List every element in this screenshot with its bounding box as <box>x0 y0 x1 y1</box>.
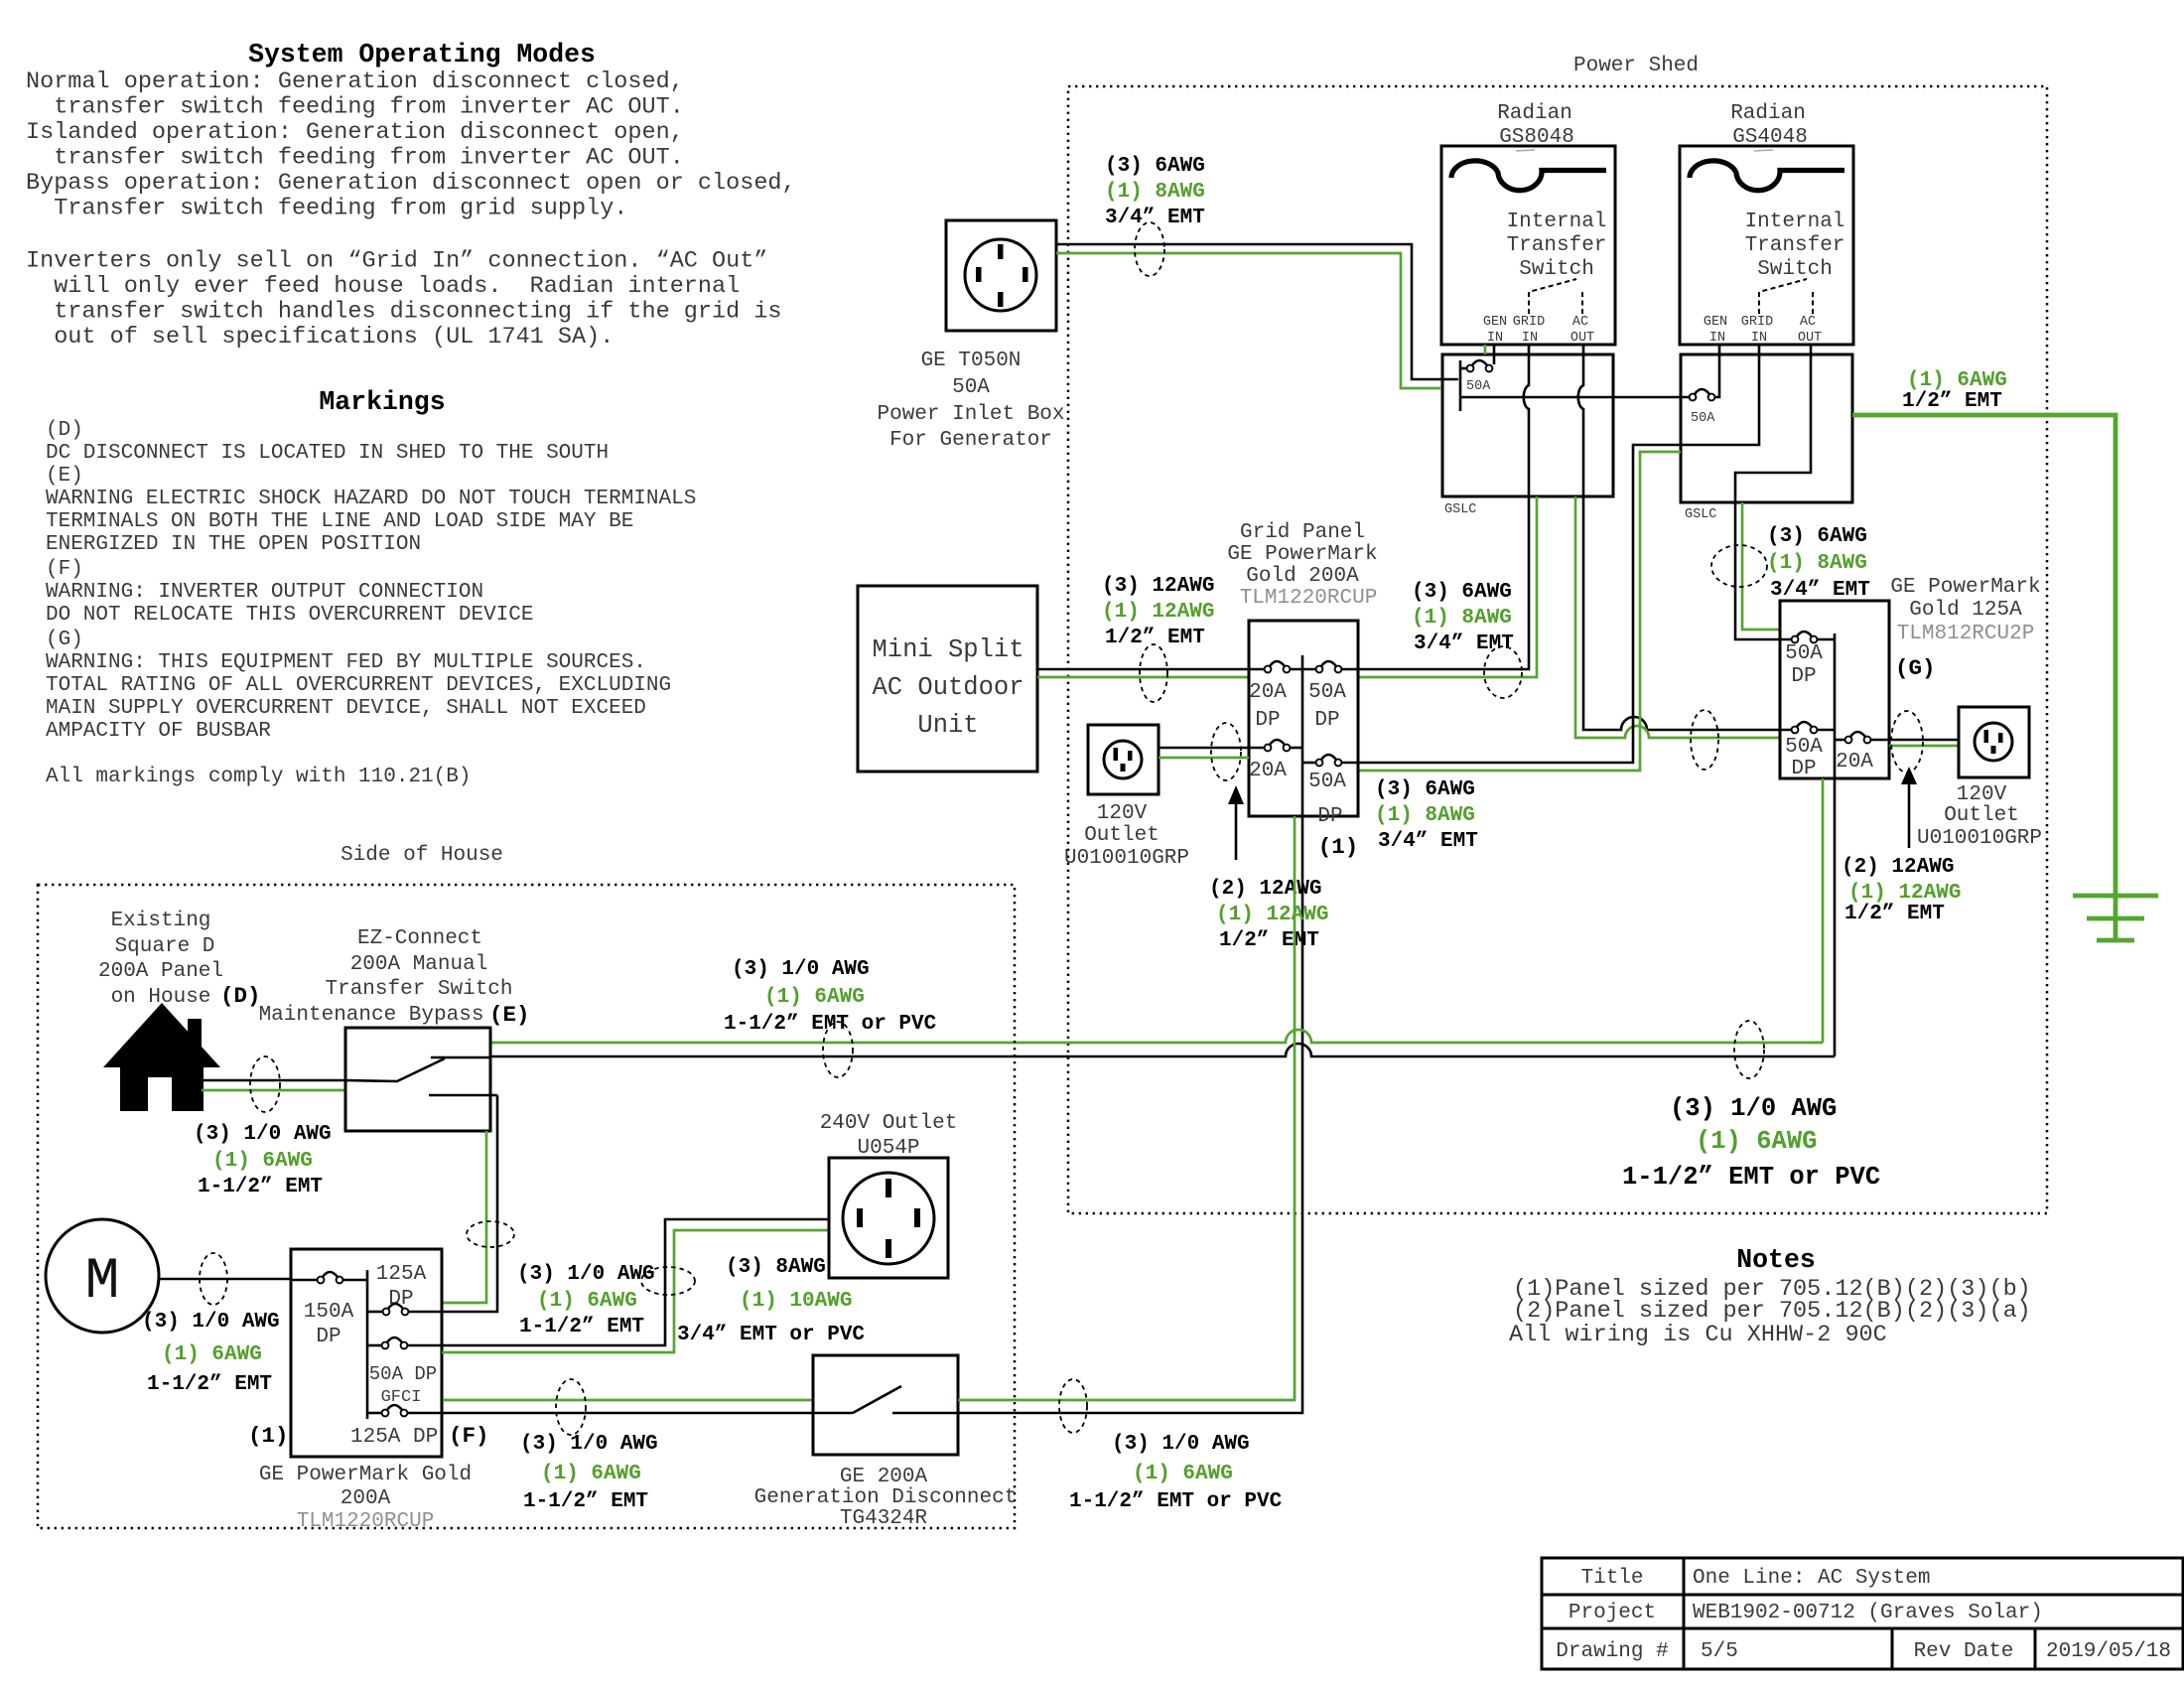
svg-text:(F): (F) <box>449 1423 489 1449</box>
svg-text:20A: 20A <box>1836 751 1873 774</box>
svg-text:TG4324R: TG4324R <box>840 1507 928 1530</box>
125A panel internal bus / feeder to long run <box>1834 633 1837 1056</box>
svg-text:GE 200A: GE 200A <box>840 1466 928 1488</box>
green pin GEN IN GS8048 <box>1484 345 1487 354</box>
arrow: shed outlet conduit pointer <box>1235 802 1238 860</box>
svg-text:GE PowerMark: GE PowerMark <box>1227 543 1377 566</box>
svg-text:(E): (E) <box>46 465 83 488</box>
svg-text:(3) 6AWG: (3) 6AWG <box>1105 155 1205 178</box>
breaker 50A DP (to GSLC grid in) <box>1316 666 1323 673</box>
conduit marker: AC OUT to 125A panel <box>1691 710 1718 770</box>
conduit marker: 125A outlet run <box>1891 711 1923 773</box>
ground symbol <box>2073 894 2158 899</box>
wire: long run EZ-connect to 125A panel (black) <box>490 1044 1835 1056</box>
svg-text:1/2” EMT: 1/2” EMT <box>1902 390 2002 413</box>
svg-text:(1) 8AWG: (1) 8AWG <box>1105 181 1205 204</box>
120V outlet U010010GRP (right) <box>1959 707 2029 777</box>
conduit marker: inlet run <box>1135 222 1164 276</box>
breaker 50A DP GFCI (240V outlet) <box>367 1344 382 1347</box>
conduit marker: shed outlet run <box>1211 723 1241 780</box>
OutBack logo swoosh GS8048 <box>1451 161 1606 191</box>
svg-text:Gold 125A: Gold 125A <box>1909 599 2022 622</box>
svg-text:TLM1220RCUP: TLM1220RCUP <box>1240 587 1378 610</box>
svg-text:Outlet: Outlet <box>1084 824 1160 847</box>
svg-text:IN: IN <box>1751 331 1767 346</box>
svg-text:GSLC: GSLC <box>1685 507 1716 522</box>
svg-text:1-1/2” EMT: 1-1/2” EMT <box>198 1176 323 1198</box>
wire: 125A panel feeder down to long run (green) <box>1822 778 1825 1043</box>
svg-text:(3) 1/0 AWG: (3) 1/0 AWG <box>732 958 870 981</box>
svg-text:Normal operation: Generation d: Normal operation: Generation disconnect … <box>26 69 684 95</box>
svg-text:Markings: Markings <box>319 387 445 417</box>
conduit marker: gen disconnect to shed <box>1059 1379 1087 1433</box>
wire: equipment ground to ground rod (thick green) <box>1852 415 2116 940</box>
wire: 240V outlet feed (black) <box>407 1219 829 1345</box>
svg-text:5/5: 5/5 <box>1701 1640 1738 1663</box>
svg-text:All markings comply with 110.2: All markings comply with 110.21(B) <box>46 766 471 788</box>
svg-text:120V: 120V <box>1097 802 1148 825</box>
svg-text:All wiring is Cu XHHW-2 90C: All wiring is Cu XHHW-2 90C <box>1509 1322 1887 1348</box>
svg-text:U010010GRP: U010010GRP <box>1064 847 1189 870</box>
inverter GS4048 <box>1680 146 1853 345</box>
svg-text:Internal: Internal <box>1745 211 1845 233</box>
svg-text:(3) 8AWG: (3) 8AWG <box>726 1256 826 1279</box>
svg-text:(1) 6AWG: (1) 6AWG <box>1133 1463 1233 1485</box>
svg-text:(3) 6AWG: (3) 6AWG <box>1412 581 1512 604</box>
grid panel bus divider / feeder down to generation disconnect <box>958 655 1302 1413</box>
svg-text:AC Outdoor: AC Outdoor <box>872 673 1024 702</box>
wire: generator inlet ground (green) <box>1056 253 1441 388</box>
svg-text:Outlet: Outlet <box>1944 804 2019 827</box>
svg-text:Maintenance Bypass: Maintenance Bypass <box>259 1004 484 1027</box>
svg-text:DP: DP <box>1791 758 1816 780</box>
house icon <box>103 1003 220 1067</box>
svg-text:M: M <box>85 1250 120 1315</box>
svg-text:(1) 12AWG: (1) 12AWG <box>1102 601 1214 624</box>
wire: GS4048 GRID IN ground (green) <box>1358 452 1681 771</box>
svg-text:1-1/2” EMT: 1-1/2” EMT <box>519 1316 644 1338</box>
svg-text:ENERGIZED IN THE OPEN POSITION: ENERGIZED IN THE OPEN POSITION <box>46 533 421 556</box>
svg-text:Islanded operation: Generation: Islanded operation: Generation disconnec… <box>26 119 684 146</box>
svg-text:200A Panel: 200A Panel <box>98 960 223 983</box>
panel: Grid Panel GE PowerMark Gold 200A <box>1249 621 1358 816</box>
svg-text:transfer switch handles discon: transfer switch handles disconnecting if… <box>26 299 782 326</box>
svg-text:(3) 6AWG: (3) 6AWG <box>1767 525 1867 548</box>
svg-text:Switch: Switch <box>1519 258 1594 281</box>
svg-text:(1) 12AWG: (1) 12AWG <box>1848 882 1961 905</box>
svg-text:(1): (1) <box>1318 834 1359 860</box>
internal transfer switch symbol GS4048 (dashed) <box>1759 279 1813 314</box>
svg-text:GE PowerMark: GE PowerMark <box>1890 576 2040 599</box>
conduit marker: 240V outlet run <box>641 1267 695 1295</box>
svg-text:Internal: Internal <box>1507 211 1607 233</box>
svg-text:TERMINALS ON BOTH THE LINE AND: TERMINALS ON BOTH THE LINE AND LOAD SIDE… <box>46 510 633 533</box>
svg-text:Square D: Square D <box>115 935 215 958</box>
svg-text:System Operating Modes: System Operating Modes <box>248 40 596 70</box>
wire: 125A panel outlet ground (green) <box>1889 745 1959 748</box>
svg-text:50A DP: 50A DP <box>369 1363 437 1385</box>
svg-text:1-1/2” EMT: 1-1/2” EMT <box>147 1373 272 1396</box>
arrow: right outlet conduit pointer <box>1908 782 1911 848</box>
svg-text:(1) 8AWG: (1) 8AWG <box>1412 607 1512 630</box>
breaker 150A DP (main) <box>291 1279 318 1282</box>
svg-text:(3) 1/0 AWG: (3) 1/0 AWG <box>520 1433 658 1456</box>
GE T050N power inlet box <box>946 220 1056 331</box>
svg-text:Project: Project <box>1569 1602 1656 1624</box>
svg-text:(3) 12AWG: (3) 12AWG <box>1102 575 1214 598</box>
wire: house panel to generation disconnect (black) <box>407 1412 853 1415</box>
120V outlet U010010GRP (shed) <box>1088 725 1159 794</box>
breaker 50A (GSLC2 generator) <box>1690 394 1697 401</box>
svg-text:(G): (G) <box>46 629 83 651</box>
breaker 50A DP (125A panel top) <box>1792 636 1799 643</box>
svg-text:Side of House: Side of House <box>341 844 503 867</box>
svg-text:transfer switch feeding from i: transfer switch feeding from inverter AC… <box>26 145 684 172</box>
svg-text:IN: IN <box>1709 331 1725 346</box>
svg-text:200A: 200A <box>341 1487 391 1510</box>
breaker 20A DP (mini split) <box>1265 666 1272 673</box>
svg-text:OUT: OUT <box>1798 331 1822 346</box>
svg-text:TOTAL RATING OF ALL OVERCURREN: TOTAL RATING OF ALL OVERCURRENT DEVICES,… <box>46 674 671 697</box>
conduit marker: long run right <box>1734 1021 1764 1078</box>
wire: long run ground (green) <box>490 1030 1823 1043</box>
svg-text:(1) 6AWG: (1) 6AWG <box>537 1290 637 1313</box>
svg-text:U010010GRP: U010010GRP <box>1917 827 2042 850</box>
svg-text:Power Inlet Box: Power Inlet Box <box>877 403 1064 426</box>
svg-text:1-1/2” EMT or PVC: 1-1/2” EMT or PVC <box>1069 1490 1283 1513</box>
wire: 125A panel outlet feed (black) <box>1870 739 1959 742</box>
svg-text:DO NOT RELOCATE THIS OVERCURRE: DO NOT RELOCATE THIS OVERCURRENT DEVICE <box>46 604 533 627</box>
svg-text:3/4” EMT: 3/4” EMT <box>1770 579 1870 602</box>
GSLC load center 2 <box>1681 354 1852 502</box>
inverter GS8048 <box>1441 146 1615 345</box>
conduit marker: meter run <box>200 1253 227 1305</box>
svg-text:will only ever feed house load: will only ever feed house loads. Radian … <box>26 273 740 300</box>
svg-text:AC: AC <box>1800 315 1816 330</box>
svg-text:(1) 6AWG: (1) 6AWG <box>212 1150 313 1173</box>
wire: house panel to generation disconnect ground (green) <box>443 1399 813 1402</box>
svg-text:GRID: GRID <box>1513 315 1545 330</box>
wire: mini split feed (black) <box>1037 668 1265 671</box>
svg-text:Radian: Radian <box>1730 102 1806 125</box>
wire: 240V outlet ground (green) <box>442 1230 829 1352</box>
internal transfer switch symbol GS8048 (dashed) <box>1529 279 1582 314</box>
disconnect switch: GE 200A TG4324R <box>813 1355 958 1455</box>
wire: EZ-connect to house panel 125A DP (black) <box>406 1095 497 1312</box>
svg-text:(3) 1/0 AWG: (3) 1/0 AWG <box>1670 1094 1837 1123</box>
svg-text:50A: 50A <box>1466 379 1491 394</box>
svg-text:AMPACITY OF BUSBAR: AMPACITY OF BUSBAR <box>46 720 271 743</box>
svg-text:125A: 125A <box>376 1263 427 1286</box>
house panel bus divider <box>366 1270 369 1419</box>
svg-text:OUT: OUT <box>1570 331 1594 346</box>
svg-text:Notes: Notes <box>1736 1245 1816 1275</box>
svg-text:(2)Panel sized per 705.12(B)(2: (2)Panel sized per 705.12(B)(2)(3)(a) <box>1513 1298 2031 1325</box>
svg-text:(E): (E) <box>489 1002 530 1028</box>
svg-text:Unit: Unit <box>917 711 978 740</box>
svg-text:150A: 150A <box>304 1301 354 1324</box>
Mini Split AC Outdoor Unit <box>858 586 1037 772</box>
title block <box>1542 1558 2183 1669</box>
wire: house to EZ-connect (black) <box>202 1079 345 1082</box>
svg-text:Existing: Existing <box>111 910 211 932</box>
node: Side of House enclosure <box>38 885 1015 1528</box>
svg-text:(3) 1/0 AWG: (3) 1/0 AWG <box>1112 1433 1250 1456</box>
svg-text:DP: DP <box>1317 805 1342 828</box>
conduit marker: long run left <box>823 1022 853 1077</box>
svg-text:(G): (G) <box>1895 655 1936 681</box>
svg-text:Inverters only sell on “Grid I: Inverters only sell on “Grid In” connect… <box>26 248 767 275</box>
wire: GS4048 AC OUT to 125A panel (black) <box>1735 345 1811 639</box>
breaker 50A DP (bottom, to GS4048 grid in) <box>1316 760 1323 767</box>
svg-text:GRID: GRID <box>1741 315 1773 330</box>
panel: GE PowerMark Gold 200A (house) <box>291 1249 442 1457</box>
svg-text:DC DISCONNECT IS LOCATED IN SH: DC DISCONNECT IS LOCATED IN SHED TO THE … <box>46 442 609 465</box>
wire: GSLC1 internal bus to GSLC2 <box>1460 396 1689 399</box>
GSLC load center 1 <box>1442 354 1613 496</box>
svg-text:1/2” EMT: 1/2” EMT <box>1105 627 1205 649</box>
svg-text:WARNING: INVERTER OUTPUT CONNE: WARNING: INVERTER OUTPUT CONNECTION <box>46 581 483 604</box>
wire: GS4048 GRID IN from grid panel 50A DP (black) <box>1338 345 1759 763</box>
panel: GE PowerMark Gold 125A TLM812RCU2P <box>1780 601 1889 778</box>
svg-text:1/2” EMT: 1/2” EMT <box>1844 903 1945 925</box>
svg-text:Gold 200A: Gold 200A <box>1246 565 1359 588</box>
svg-text:Generation Disconnect: Generation Disconnect <box>754 1486 1018 1509</box>
svg-text:transfer switch feeding from i: transfer switch feeding from inverter AC… <box>26 94 684 121</box>
svg-text:(1) 6AWG: (1) 6AWG <box>1696 1127 1817 1156</box>
breaker 125A DP (bottom, to generation disconnect) <box>367 1412 382 1415</box>
svg-text:Grid Panel: Grid Panel <box>1240 521 1365 544</box>
svg-text:3/4” EMT: 3/4” EMT <box>1105 207 1205 229</box>
svg-text:Power Shed: Power Shed <box>1573 55 1699 77</box>
svg-text:One Line: AC System: One Line: AC System <box>1693 1567 1930 1590</box>
wire: house to EZ-connect ground (green) <box>202 1089 345 1092</box>
svg-text:Title: Title <box>1580 1567 1643 1590</box>
svg-text:Transfer Switch: Transfer Switch <box>325 978 512 1001</box>
svg-text:DP: DP <box>1791 665 1816 688</box>
svg-text:(3) 1/0 AWG: (3) 1/0 AWG <box>194 1123 332 1146</box>
svg-text:(1) 10AWG: (1) 10AWG <box>740 1290 852 1313</box>
svg-text:1-1/2” EMT: 1-1/2” EMT <box>523 1490 648 1513</box>
svg-text:240V Outlet: 240V Outlet <box>820 1112 958 1135</box>
svg-text:200A Manual: 200A Manual <box>350 953 488 976</box>
svg-text:3/4” EMT or PVC: 3/4” EMT or PVC <box>677 1324 865 1346</box>
svg-text:Drawing #: Drawing # <box>1556 1640 1668 1663</box>
svg-text:TLM1220RCUP: TLM1220RCUP <box>297 1510 435 1533</box>
wire: mini split ground (green) <box>1037 676 1249 679</box>
conduit marker: gen disconnect feed <box>556 1379 586 1435</box>
svg-text:50A: 50A <box>1691 411 1715 426</box>
svg-text:(1) 8AWG: (1) 8AWG <box>1767 552 1867 575</box>
svg-text:DP: DP <box>1255 709 1280 732</box>
svg-text:(3) 1/0 AWG: (3) 1/0 AWG <box>142 1311 280 1334</box>
svg-text:(1) 6AWG: (1) 6AWG <box>541 1463 641 1485</box>
svg-text:IN: IN <box>1522 331 1538 346</box>
wire: shed outlet ground (green) <box>1159 757 1249 760</box>
svg-text:(1): (1) <box>248 1423 289 1449</box>
svg-text:Transfer: Transfer <box>1745 234 1845 257</box>
wire: generation disconnect ground to grid panel (green) <box>958 816 1295 1400</box>
svg-text:Switch: Switch <box>1757 258 1833 281</box>
svg-text:(1) 12AWG: (1) 12AWG <box>1216 904 1328 926</box>
wire: GS8048 AC OUT down to 125A panel (black) <box>1578 345 1791 730</box>
svg-text:2019/05/18: 2019/05/18 <box>2046 1640 2171 1663</box>
svg-text:50A: 50A <box>952 376 990 399</box>
svg-text:(D): (D) <box>220 983 261 1009</box>
conduit marker: mini split run <box>1140 644 1167 702</box>
svg-text:Bypass operation: Generation d: Bypass operation: Generation disconnect … <box>26 170 796 197</box>
svg-text:3/4” EMT: 3/4” EMT <box>1414 633 1514 655</box>
svg-text:WARNING: THIS EQUIPMENT FED BY: WARNING: THIS EQUIPMENT FED BY MULTIPLE … <box>46 651 646 674</box>
svg-text:(1) 6AWG: (1) 6AWG <box>162 1343 262 1366</box>
svg-text:120V: 120V <box>1957 783 2007 806</box>
svg-text:50A: 50A <box>1308 771 1346 793</box>
svg-text:1-1/2” EMT or PVC: 1-1/2” EMT or PVC <box>1622 1163 1880 1192</box>
svg-text:GEN: GEN <box>1483 315 1507 330</box>
svg-text:EZ-Connect: EZ-Connect <box>357 927 482 950</box>
svg-text:(3) 6AWG: (3) 6AWG <box>1375 778 1475 801</box>
svg-text:20A: 20A <box>1249 681 1287 704</box>
node: Power Shed enclosure <box>1068 86 2047 1213</box>
svg-text:(2) 12AWG: (2) 12AWG <box>1842 856 1954 879</box>
svg-text:AC: AC <box>1572 315 1588 330</box>
wire: GS8048 GRID IN down to grid panel (black) <box>1338 345 1529 669</box>
wire: shed outlet feed (black) <box>1159 747 1265 750</box>
svg-text:50A: 50A <box>1785 642 1823 665</box>
svg-text:WARNING ELECTRIC SHOCK HAZARD: WARNING ELECTRIC SHOCK HAZARD DO NOT TOU… <box>46 488 696 510</box>
svg-text:DP: DP <box>1314 709 1339 732</box>
svg-text:Transfer switch feeding from g: Transfer switch feeding from grid supply… <box>26 196 627 222</box>
utility meter M <box>46 1219 159 1333</box>
svg-text:(D): (D) <box>46 419 83 442</box>
wire: meter to house panel <box>159 1278 291 1281</box>
svg-text:GSLC: GSLC <box>1444 502 1476 517</box>
svg-text:For Generator: For Generator <box>889 429 1052 452</box>
svg-text:GEN: GEN <box>1704 315 1727 330</box>
svg-text:GE T050N: GE T050N <box>921 350 1022 372</box>
breaker 50A (GSLC1 generator) <box>1493 345 1496 364</box>
svg-text:GE PowerMark Gold: GE PowerMark Gold <box>259 1464 472 1486</box>
svg-text:3/4” EMT: 3/4” EMT <box>1378 830 1478 853</box>
conduit marker: EZ down run <box>467 1221 514 1247</box>
svg-text:WEB1902-00712 (Graves Solar): WEB1902-00712 (Graves Solar) <box>1693 1602 2043 1624</box>
GSLC1 input bus bar <box>1459 360 1462 411</box>
breaker 50A DP (125A panel bottom) <box>1792 727 1799 734</box>
240V outlet U054P <box>829 1158 948 1278</box>
svg-text:(2) 12AWG: (2) 12AWG <box>1209 878 1321 901</box>
svg-text:DP: DP <box>316 1326 341 1348</box>
svg-text:Radian: Radian <box>1497 102 1572 125</box>
svg-text:20A: 20A <box>1249 760 1287 782</box>
svg-text:1/2” EMT: 1/2” EMT <box>1219 929 1319 952</box>
wire: EZ-connect ground down (green) <box>443 1131 486 1303</box>
OutBack logo swoosh GS4048 <box>1690 161 1844 191</box>
svg-text:MAIN SUPPLY OVERCURRENT DEVICE: MAIN SUPPLY OVERCURRENT DEVICE, SHALL NO… <box>46 697 646 720</box>
svg-text:1-1/2” EMT or PVC: 1-1/2” EMT or PVC <box>724 1013 937 1036</box>
svg-text:Transfer: Transfer <box>1507 234 1607 257</box>
svg-text:(1) 6AWG: (1) 6AWG <box>1907 369 2007 392</box>
svg-text:125A DP: 125A DP <box>350 1426 438 1449</box>
svg-text:(F): (F) <box>46 558 83 581</box>
wire: GS8048 GRID IN ground (green) <box>1358 496 1537 677</box>
svg-text:Mini Split: Mini Split <box>872 635 1024 664</box>
svg-text:(1) 8AWG: (1) 8AWG <box>1375 804 1475 827</box>
wire: GS8048 AC OUT ground (green) <box>1575 496 1779 738</box>
transfer switch: EZ-Connect 200A manual <box>345 1028 490 1131</box>
svg-text:Rev Date: Rev Date <box>1914 1640 2014 1663</box>
conduit marker: AC OUT run GS4048 <box>1711 545 1767 587</box>
svg-text:out of sell specifications (UL: out of sell specifications (UL 1741 SA). <box>26 324 614 351</box>
wire: GS4048 AC OUT ground (green) <box>1742 502 1779 630</box>
svg-text:50A: 50A <box>1308 681 1346 704</box>
wire: generator inlet L (black) <box>1056 244 1458 379</box>
svg-text:IN: IN <box>1487 331 1503 346</box>
svg-text:GFCI: GFCI <box>381 1388 422 1407</box>
svg-text:(3) 1/0 AWG: (3) 1/0 AWG <box>517 1263 655 1286</box>
breaker 20A (120V outlet) <box>1265 745 1272 752</box>
svg-text:(1) 6AWG: (1) 6AWG <box>764 986 865 1009</box>
conduit marker: house run <box>250 1056 280 1112</box>
svg-text:50A: 50A <box>1785 736 1823 759</box>
breaker 20A (125A panel outlet) <box>1845 737 1852 744</box>
svg-text:TLM812RCU2P: TLM812RCU2P <box>1897 623 2035 645</box>
conduit marker: grid panel to GSLC run <box>1484 646 1522 698</box>
